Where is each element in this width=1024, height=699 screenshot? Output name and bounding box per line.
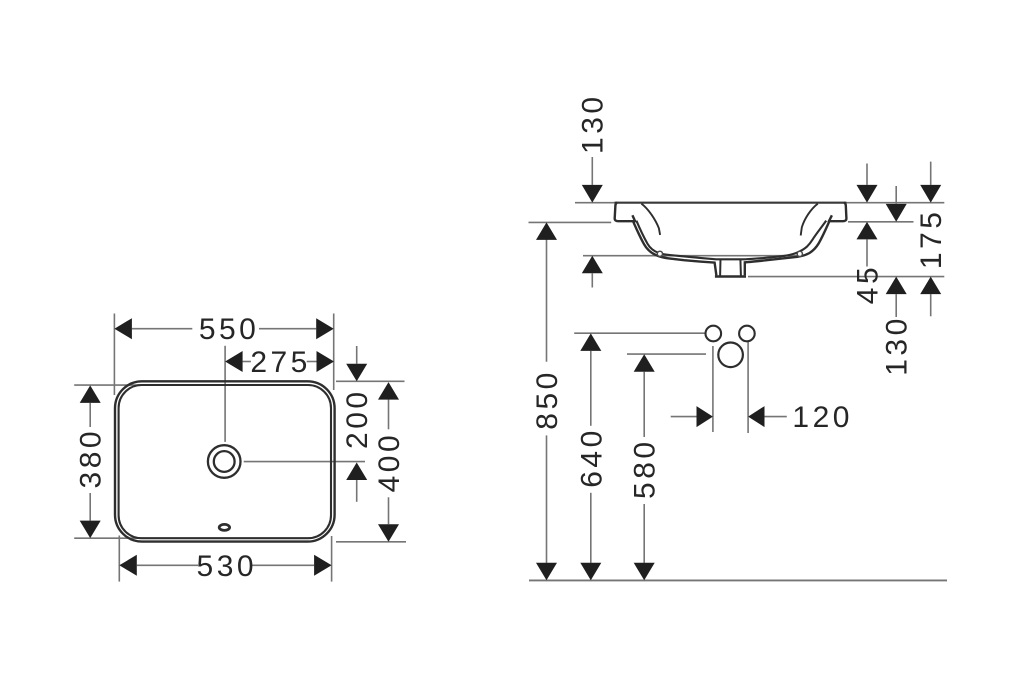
svg-text:130: 130 bbox=[577, 93, 610, 154]
svg-text:200: 200 bbox=[341, 388, 374, 449]
svg-text:640: 640 bbox=[575, 427, 608, 488]
svg-text:380: 380 bbox=[75, 428, 108, 489]
svg-text:580: 580 bbox=[629, 438, 662, 499]
svg-text:175: 175 bbox=[915, 209, 948, 270]
svg-text:275: 275 bbox=[250, 346, 311, 379]
svg-text:400: 400 bbox=[373, 432, 406, 493]
svg-text:130: 130 bbox=[881, 315, 914, 376]
svg-text:550: 550 bbox=[199, 313, 260, 346]
svg-text:45: 45 bbox=[852, 264, 885, 304]
svg-text:850: 850 bbox=[531, 369, 564, 430]
svg-text:120: 120 bbox=[792, 401, 853, 434]
svg-text:530: 530 bbox=[197, 550, 258, 583]
